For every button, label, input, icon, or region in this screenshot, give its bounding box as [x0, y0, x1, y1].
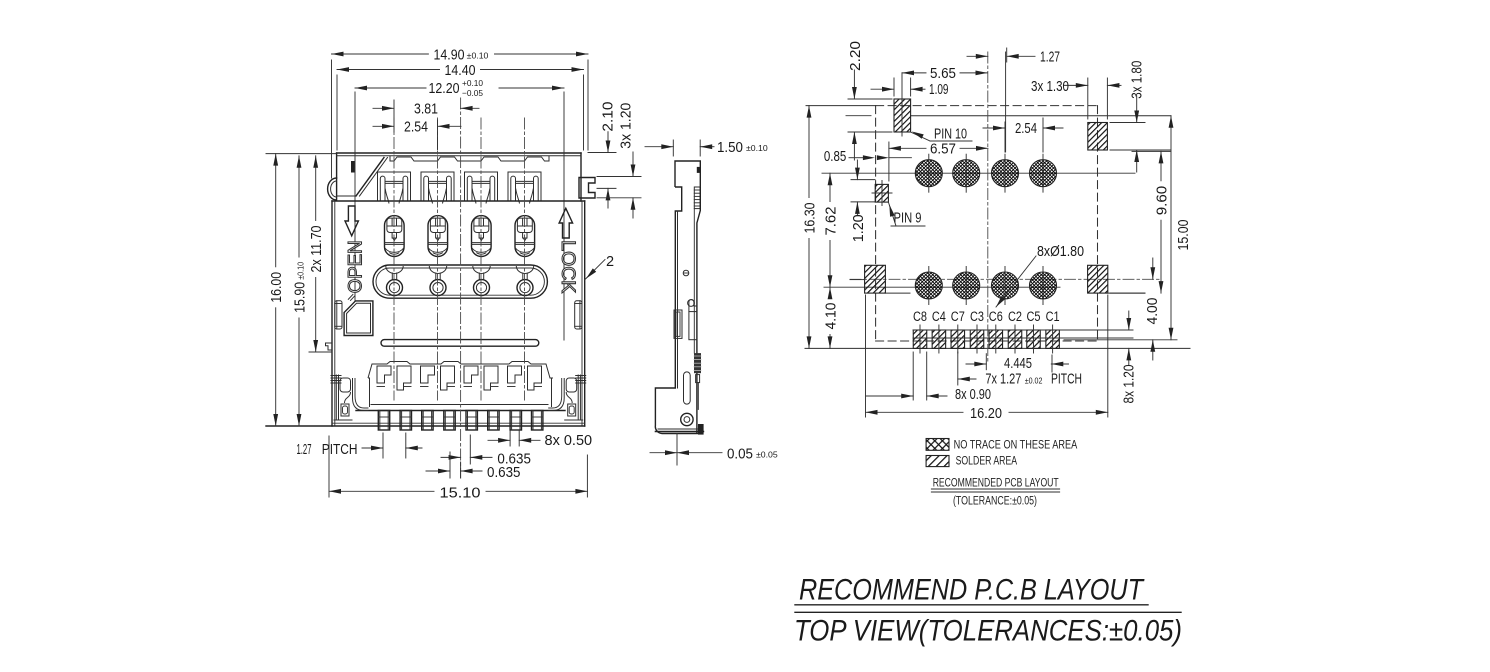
- legend solder box: [926, 456, 949, 467]
- right mid clip: [575, 301, 582, 329]
- stadium contact at 525.0: [516, 266, 533, 274]
- svg-text:5.65: 5.65: [930, 66, 956, 82]
- side capsule slot: [684, 372, 691, 404]
- svg-text:2.54: 2.54: [1015, 121, 1037, 137]
- svg-text:9.60: 9.60: [1154, 186, 1170, 216]
- pad mid-left: [865, 265, 886, 293]
- bottom comb outline: [368, 362, 553, 379]
- stadium contact at 438.0: [429, 266, 446, 274]
- pin x=471.7: [466, 411, 477, 431]
- stadium contact at 481.5: [473, 266, 490, 274]
- 16.30 top ref line: [806, 105, 876, 107]
- dim 2.10 right: [588, 152, 616, 154]
- svg-text:C1: C1: [1046, 309, 1060, 324]
- svg-text:C8: C8: [913, 309, 927, 324]
- svg-text:OPEN: OPEN: [346, 240, 367, 293]
- top reference left stub: [846, 115, 871, 117]
- left edge small tab: [326, 343, 333, 350]
- side middle slot: [689, 312, 697, 340]
- dim 7.62: [829, 173, 831, 201]
- svg-text:3.81: 3.81: [414, 102, 438, 118]
- dim 15.90 +-0.10 left: [298, 156, 300, 257]
- dashed outline right: [1097, 106, 1099, 341]
- side circle 2: [688, 300, 695, 307]
- svg-text:4.10: 4.10: [823, 303, 839, 330]
- svg-text:14.40: 14.40: [445, 63, 476, 79]
- svg-text:C6: C6: [989, 309, 1003, 324]
- side head dark block: [697, 167, 701, 173]
- svg-text:2.20: 2.20: [848, 41, 864, 71]
- dim 4.10: [829, 287, 831, 297]
- svg-text:14.90: 14.90: [434, 47, 465, 63]
- side left clip slot: [674, 310, 682, 338]
- svg-text:TOP VIEW(TOLERANCES:±0.05): TOP VIEW(TOLERANCES:±0.05): [794, 615, 1182, 648]
- flange bottom line: [332, 200, 585, 202]
- dim 2.54: [437, 120, 439, 150]
- svg-text:7x 1.27: 7x 1.27: [985, 372, 1021, 388]
- dim 3x 1.30: [1087, 78, 1089, 119]
- contact circles row 2: [915, 272, 942, 299]
- svg-text:PITCH: PITCH: [1051, 372, 1082, 388]
- title rules: [795, 604, 1148, 606]
- side foot dark block: [698, 424, 704, 435]
- svg-text:16.00: 16.00: [269, 272, 285, 303]
- dim 2x 11.70 left: [309, 351, 332, 353]
- svg-text:1.27: 1.27: [297, 442, 312, 458]
- dim 6.57: [889, 147, 926, 149]
- pad PIN 10 top-left: [894, 99, 911, 132]
- pin x=515.8: [510, 411, 521, 431]
- svg-text:PIN 10: PIN 10: [934, 126, 967, 142]
- svg-text:LOCK: LOCK: [557, 240, 578, 293]
- pad mid-right: [1088, 265, 1108, 293]
- dim 14.90 +-0.10: [331, 60, 333, 178]
- svg-text:−0.05: −0.05: [462, 88, 483, 98]
- top reference line: [911, 115, 1171, 117]
- svg-text:RECOMMENDED PCB LAYOUT: RECOMMENDED PCB LAYOUT: [933, 475, 1059, 489]
- svg-text:±0.10: ±0.10: [746, 143, 768, 153]
- svg-text:(TOLERANCE:±0.05): (TOLERANCE:±0.05): [953, 496, 1037, 508]
- dashed outline top: [876, 105, 1098, 107]
- dim 3x 1.80: [1110, 122, 1145, 124]
- dim 16.20: [865, 295, 867, 417]
- svg-text:±0.05: ±0.05: [756, 449, 778, 459]
- svg-text:12.20: 12.20: [429, 81, 460, 97]
- right top clip: [579, 178, 595, 199]
- dim 4.00: [1152, 258, 1154, 279]
- legend no trace box: [926, 439, 949, 451]
- dim 1.09: [893, 78, 895, 96]
- svg-text:2.10: 2.10: [601, 102, 617, 132]
- svg-text:PIN 9: PIN 9: [894, 210, 922, 226]
- left mid clip: [335, 301, 342, 329]
- svg-text:C4: C4: [932, 309, 946, 324]
- svg-text:1.09: 1.09: [929, 82, 949, 98]
- dim 12.20 +0.10 -0.05: [354, 92, 356, 160]
- svg-text:+0.10: +0.10: [462, 78, 483, 88]
- pin x=537.2: [532, 411, 543, 431]
- dim 8x 1.20: [1128, 311, 1130, 330]
- svg-text:1.50: 1.50: [717, 140, 743, 156]
- svg-text:15.10: 15.10: [440, 485, 481, 501]
- dim 0.635 upper: [469, 435, 471, 464]
- bottom left bracket: [331, 375, 369, 420]
- arrow OPEN (down): [345, 206, 358, 236]
- svg-text:SOLDER AREA: SOLDER AREA: [956, 454, 1018, 468]
- svg-text:15.00: 15.00: [1176, 220, 1192, 251]
- body bottom edge: [266, 425, 585, 427]
- dim 3.81: [393, 100, 395, 132]
- bottom long line: [805, 347, 1190, 349]
- dim 16.30: [808, 106, 810, 198]
- small dark latch detail: [351, 161, 355, 173]
- pin x=405.8: [400, 411, 411, 431]
- dim 1.20 pin9: [851, 179, 875, 181]
- svg-text:C3: C3: [970, 309, 984, 324]
- row2 dashdot centerline: [850, 278, 1160, 280]
- side rivet: [681, 413, 693, 425]
- side serrated dark block: [694, 353, 701, 373]
- dim 3x 1.20 right: [597, 176, 641, 178]
- dim 1.27 top: [1006, 48, 1008, 62]
- pin x=493.4: [488, 411, 499, 431]
- svg-text:±0.10: ±0.10: [467, 50, 489, 60]
- diagonal stiffener: [356, 158, 384, 197]
- thin bar slot: [381, 340, 539, 347]
- oval contacts row: [385, 216, 405, 257]
- body outline top edge: [337, 152, 581, 154]
- svg-text:RECOMMEND P.C.B LAYOUT: RECOMMEND P.C.B LAYOUT: [799, 574, 1145, 607]
- dim 8x 0.50: [509, 431, 511, 446]
- arrow LOCK (up): [559, 208, 573, 238]
- cover stamped edge tabs: [390, 156, 549, 161]
- dim 4.445: [985, 354, 987, 370]
- svg-text:1.27: 1.27: [1040, 50, 1060, 66]
- pin x=384: [378, 411, 389, 431]
- svg-text:3x 1.20: 3x 1.20: [619, 103, 635, 149]
- contact circles row 1: [915, 160, 942, 187]
- svg-text:C7: C7: [951, 309, 965, 324]
- body side edges: [331, 201, 333, 426]
- centerlines: [393, 118, 395, 400]
- svg-text:4.00: 4.00: [1145, 298, 1161, 325]
- svg-text:PITCH: PITCH: [322, 442, 358, 458]
- contact pair cutouts: [377, 366, 391, 383]
- dashed outline left: [875, 106, 877, 341]
- comb lower line: [371, 404, 548, 406]
- dim 2.54 pcb: [1004, 122, 1006, 152]
- dim 5.65: [902, 72, 926, 74]
- svg-text:2x 11.70: 2x 11.70: [309, 226, 325, 273]
- row1 line: [822, 172, 1135, 174]
- dim 1.50 +-0.10: [672, 140, 674, 156]
- side head: [675, 161, 700, 187]
- pin band: [356, 410, 565, 412]
- vertical centerline: [987, 52, 989, 361]
- svg-text:7.62: 7.62: [823, 207, 839, 236]
- svg-text:3x 1.80: 3x 1.80: [1129, 61, 1145, 99]
- svg-text:1.20: 1.20: [851, 214, 867, 242]
- dashed outline bottom: [876, 340, 1098, 342]
- leader 2: [585, 260, 606, 281]
- hinge bump left edge: [328, 178, 337, 200]
- label PIN 9: [888, 202, 896, 226]
- dim 1.27 PITCH bottom: [382, 433, 384, 458]
- svg-text:C2: C2: [1008, 309, 1022, 324]
- side serrated contacts: [694, 187, 700, 209]
- svg-text:15.90: 15.90: [292, 282, 308, 313]
- pad PIN 9: [875, 184, 888, 202]
- row2 circle line: [824, 286, 1060, 288]
- svg-text:2.54: 2.54: [404, 120, 428, 136]
- pin x=427.4: [422, 411, 433, 431]
- svg-text:8xØ1.80: 8xØ1.80: [1037, 244, 1084, 260]
- svg-text:2: 2: [606, 254, 614, 270]
- svg-text:NO TRACE ON THESE AREA: NO TRACE ON THESE AREA: [954, 437, 1078, 451]
- dim 14.40: [336, 75, 338, 150]
- svg-text:4.445: 4.445: [1004, 356, 1032, 372]
- bottom small pads: [913, 330, 927, 348]
- cover inner wall right: [563, 158, 565, 340]
- dim 0.05 +-0.05: [676, 434, 678, 466]
- sim card symbol: [344, 301, 373, 336]
- side body outline: [655, 187, 700, 434]
- contact windows in top flange: [378, 172, 411, 201]
- dim 16.00 left: [266, 153, 336, 155]
- dim 15.00: [1170, 116, 1172, 340]
- svg-text:±0.02: ±0.02: [1025, 375, 1043, 385]
- side circle 1: [683, 270, 689, 276]
- 4.00 bottom ref line: [1064, 339, 1177, 341]
- label PIN 10: [911, 132, 930, 141]
- side hook: [689, 300, 697, 312]
- svg-text:0.05: 0.05: [727, 446, 753, 462]
- pin x=449.5: [444, 411, 455, 431]
- svg-text:C5: C5: [1027, 309, 1041, 324]
- dim 9.60: [1132, 150, 1171, 152]
- svg-text:0.85: 0.85: [824, 149, 846, 165]
- cover inner wall left: [354, 158, 356, 301]
- svg-text:16.30: 16.30: [802, 203, 818, 234]
- svg-text:±0.10: ±0.10: [295, 262, 305, 280]
- dim 8x 0.90: [912, 352, 914, 400]
- pad top-right: [1088, 123, 1108, 151]
- dim 7x 1.27 pitch: [957, 352, 959, 385]
- dim 0.635 lower: [449, 452, 451, 478]
- svg-text:8x 1.20: 8x 1.20: [1122, 365, 1138, 404]
- svg-text:8x 0.50: 8x 0.50: [545, 433, 593, 449]
- stadium contact at 394.5: [386, 266, 403, 274]
- svg-text:8x 0.90: 8x 0.90: [955, 387, 991, 403]
- bottom right bracket: [548, 375, 586, 420]
- stadium slot with 4 circles: [373, 265, 547, 298]
- svg-text:16.20: 16.20: [970, 406, 1002, 422]
- dim 15.10: [328, 436, 330, 497]
- main centerline: [460, 98, 462, 478]
- svg-text:6.57: 6.57: [930, 142, 956, 158]
- svg-text:3x 1.30: 3x 1.30: [1031, 79, 1069, 95]
- side small piece: [696, 375, 700, 383]
- svg-text:0.635: 0.635: [487, 465, 521, 481]
- dim 2.20: [848, 98, 892, 100]
- label 8x dia 1.80: [996, 256, 1036, 307]
